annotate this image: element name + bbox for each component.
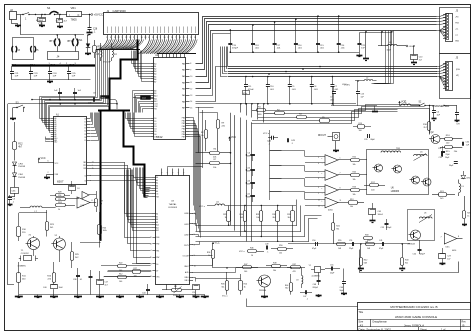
svg-text:19: 19 xyxy=(129,37,131,39)
diode CR4 1N4148 xyxy=(13,173,17,177)
resistor R1 680 xyxy=(257,109,266,112)
capacitor C16 .001 xyxy=(295,19,297,43)
ground top mid xyxy=(365,32,367,58)
svg-text:CO16112: CO16112 xyxy=(21,253,29,255)
diode CR3 1N4148 xyxy=(13,162,17,166)
wire VR1 output to +5VCC xyxy=(82,14,91,16)
svg-text:3k3: 3k3 xyxy=(288,217,291,219)
svg-text:R41: R41 xyxy=(336,225,339,227)
capacitor C39 xyxy=(89,276,93,278)
wires RIOT left group1 from cart area xyxy=(132,51,151,64)
svg-text:PA2: PA2 xyxy=(182,75,185,78)
svg-text:9k1: 9k1 xyxy=(336,228,339,230)
wire COLUM to R34 xyxy=(193,255,213,257)
svg-text:470uF: 470uF xyxy=(248,89,255,91)
svg-text:10k: 10k xyxy=(353,179,356,181)
resistor R29 1k xyxy=(228,206,230,211)
capacitor C23 1nF xyxy=(30,66,32,72)
TIA right pins luma color xyxy=(189,213,193,215)
wire TIA D0 D7 OSC xyxy=(132,263,151,265)
svg-text:12: 12 xyxy=(125,37,127,39)
thick data bus from cartridge staircase xyxy=(110,40,138,111)
op-amp U4B comparator xyxy=(325,170,338,181)
svg-text:2: 2 xyxy=(318,193,319,195)
svg-text:4u7: 4u7 xyxy=(447,258,450,260)
resistor R58 1k8 xyxy=(364,237,373,240)
svg-text:1k: 1k xyxy=(225,217,227,219)
svg-text:D7: D7 xyxy=(154,136,156,138)
svg-text:15k: 15k xyxy=(279,253,282,255)
ground rail under caps xyxy=(12,79,91,81)
svg-text:LUM0: LUM0 xyxy=(184,213,189,215)
svg-text:V: V xyxy=(172,173,173,175)
resistor R10 220 xyxy=(17,227,21,237)
svg-text:PB1: PB1 xyxy=(182,120,185,122)
svg-text:R32: R32 xyxy=(272,214,275,216)
svg-text:R58: R58 xyxy=(365,234,368,236)
svg-text:R45: R45 xyxy=(353,171,356,173)
thick bus vertical long to TIA region xyxy=(100,111,102,240)
svg-text:Draughtsman: Draughtsman xyxy=(373,320,388,323)
capacitor C44 1uF xyxy=(146,289,150,291)
bottom wire to title block xyxy=(247,299,358,307)
luma signal line 3 xyxy=(196,236,306,238)
svg-text:D6: D6 xyxy=(85,137,87,139)
svg-text:R36: R36 xyxy=(221,283,224,285)
capacitor C13 .068 xyxy=(250,182,255,184)
resistor R4b 470 xyxy=(297,116,307,119)
coil I3 xyxy=(12,46,13,52)
capacitor C21 1nF xyxy=(359,33,361,44)
RIOT right pins PA0-PA7 xyxy=(186,63,190,65)
svg-text:11: 11 xyxy=(318,200,320,202)
resistor R20 1k xyxy=(463,211,466,219)
svg-text:R44: R44 xyxy=(285,285,288,287)
inductor L7 xyxy=(30,206,42,207)
svg-text:8: 8 xyxy=(458,236,459,238)
resistor R47 100 xyxy=(243,266,252,269)
CPU left pins A0-A12 xyxy=(51,118,54,120)
svg-text:O2: O2 xyxy=(84,175,86,177)
svg-text:10uH: 10uH xyxy=(387,50,392,52)
RF shield box with connector J4 xyxy=(48,52,79,60)
cartridge pin name texture xyxy=(107,27,109,34)
wire TIA luma pins to rows xyxy=(193,214,196,226)
capacitor C46 56pF xyxy=(342,281,346,283)
svg-text:14: 14 xyxy=(251,255,253,257)
wire PA5 line xyxy=(196,34,231,96)
svg-text:PB0: PB0 xyxy=(182,118,185,120)
title block row lines xyxy=(358,309,471,311)
resistor R50 15k xyxy=(278,248,287,251)
svg-text:10: 10 xyxy=(164,37,166,39)
trimmer R8 900k xyxy=(172,289,182,292)
capacitor C1 1nF xyxy=(58,92,62,94)
wire CAD2 right xyxy=(193,259,213,266)
resistor R40 100k xyxy=(98,225,102,235)
svg-text:CR3: CR3 xyxy=(18,163,23,165)
capacitor C36 box xyxy=(11,188,19,194)
svg-text:PB3: PB3 xyxy=(182,126,185,128)
svg-text:8: 8 xyxy=(340,188,341,190)
wire J3 pin entries xyxy=(437,15,446,17)
resistor R16 2k7 xyxy=(428,122,431,131)
svg-text:S4: S4 xyxy=(47,6,51,10)
wire verticals RIOT to TIA gap xyxy=(198,107,200,153)
luma signal line 1 xyxy=(196,225,298,227)
svg-text:PB1: PB1 xyxy=(156,250,159,252)
capacitor C38 .01 xyxy=(76,275,80,277)
op-amp U4D comparator xyxy=(325,197,338,208)
capacitor C9 .001 xyxy=(289,77,291,85)
svg-text:10: 10 xyxy=(194,266,196,268)
resistor R17 100 xyxy=(370,184,379,187)
coil I5 xyxy=(31,46,32,52)
junction dots on J5 bundle xyxy=(252,76,254,78)
svg-text:23: 23 xyxy=(144,37,146,39)
bypass row1 bottom bus xyxy=(230,52,359,54)
svg-text:PA4: PA4 xyxy=(182,88,185,91)
RIOT right pins PB0-PB7 xyxy=(186,117,190,119)
resistor R26 220 xyxy=(53,273,56,283)
svg-text:1k: 1k xyxy=(244,286,246,288)
svg-text:DS1: DS1 xyxy=(78,39,83,42)
svg-text:LUM1: LUM1 xyxy=(184,224,189,226)
IC U1 CPU 6507 xyxy=(54,117,87,185)
resistor R12 4k7 xyxy=(14,122,16,142)
bypass row2 bus left part xyxy=(8,103,117,105)
luma signal line 4 xyxy=(196,241,310,243)
svg-text:GND: GND xyxy=(455,41,460,43)
svg-text:CS: CS xyxy=(156,194,158,196)
resistor R11 240 xyxy=(17,273,21,283)
resistor R39 1M xyxy=(95,199,98,207)
inductor L8c xyxy=(302,276,303,284)
capacitor C4 1uF xyxy=(425,105,434,107)
wire C21 hook to L3 node xyxy=(360,33,392,46)
resistor R25 2k2 xyxy=(71,252,74,261)
capacitor C7 .001 xyxy=(332,77,334,85)
svg-text:13: 13 xyxy=(152,37,154,39)
svg-text:9k1: 9k1 xyxy=(405,262,408,264)
svg-text:A0: A0 xyxy=(154,62,156,65)
svg-text:A1: A1 xyxy=(154,65,156,68)
capacitor C48 820pF xyxy=(317,280,321,282)
oscillator transistor pair left xyxy=(375,164,383,172)
svg-text:C48: C48 xyxy=(313,284,316,286)
svg-text:C38: C38 xyxy=(73,279,76,281)
svg-text:1: 1 xyxy=(106,37,107,39)
svg-text:R33: R33 xyxy=(287,214,290,216)
bar collecting right fan xyxy=(157,53,196,55)
wire 5V rail left xyxy=(32,99,93,101)
svg-text:20: 20 xyxy=(156,37,158,39)
resistor R24 1k xyxy=(56,204,66,207)
svg-text:820pF: 820pF xyxy=(386,227,392,229)
svg-text:7: 7 xyxy=(175,37,176,39)
svg-text:.068: .068 xyxy=(246,170,250,172)
thick bus branch staircase to TIA data pins xyxy=(124,111,145,198)
resistor R42 6k8 xyxy=(360,258,363,266)
svg-text:RES: RES xyxy=(83,162,86,164)
svg-text:3: 3 xyxy=(194,213,195,215)
capacitor C21 1nF xyxy=(11,66,13,72)
svg-text:2: 2 xyxy=(194,245,195,247)
svg-text:C49: C49 xyxy=(265,244,268,246)
inductor box P61 P64 xyxy=(13,38,34,60)
capacitor C17 .001 xyxy=(274,22,276,44)
svg-text:22: 22 xyxy=(118,37,120,39)
wire CPU control to TIA xyxy=(91,162,125,164)
TIA right pins audio xyxy=(189,272,193,274)
capacitor C52 1nF xyxy=(193,285,200,290)
svg-text:7805: 7805 xyxy=(71,18,78,22)
svg-text:4700uF: 4700uF xyxy=(36,20,44,22)
svg-text:U6C: U6C xyxy=(446,247,451,249)
svg-text:C20: C20 xyxy=(419,57,422,59)
svg-text:A12: A12 xyxy=(154,100,157,103)
resistor R54 1k8 xyxy=(366,243,375,246)
svg-text:D7: D7 xyxy=(85,140,87,142)
inductor L11 on VCC rail xyxy=(215,204,225,206)
CPU VCC pin xyxy=(47,162,54,164)
svg-text:C29: C29 xyxy=(447,256,450,258)
svg-text:PB6: PB6 xyxy=(182,134,185,136)
TIA top pin wires to trunk xyxy=(168,167,203,169)
svg-text:A4: A4 xyxy=(154,73,156,76)
resistor R45 10k xyxy=(351,174,360,177)
svg-text:24: 24 xyxy=(171,37,173,39)
transistor Q5 2N3904 xyxy=(259,275,271,287)
svg-text:5: 5 xyxy=(121,37,122,39)
svg-text:C41: C41 xyxy=(379,240,382,242)
capacitor C37 input xyxy=(9,195,11,198)
thin fan thick bus to TIA left pins xyxy=(145,197,148,199)
capacitor C6 .068 xyxy=(250,154,255,156)
svg-text:C47: C47 xyxy=(303,296,306,298)
wire fan cart left pins sweeping down-left xyxy=(99,40,108,50)
wire fan cart right pins sweeping down-left xyxy=(139,40,150,54)
wire PAL pins down xyxy=(193,278,196,282)
capacitor C41 47pF xyxy=(382,242,384,246)
capacitor C20 4u7 xyxy=(411,55,418,60)
wires RIOT data pins from thick bus xyxy=(126,113,151,119)
capacitor C54 820pF xyxy=(418,249,422,251)
svg-text:D3: D3 xyxy=(85,128,87,130)
grounds lower middle xyxy=(264,295,266,296)
resistor R34 1k xyxy=(212,250,215,259)
connector J3 pin block xyxy=(446,14,453,42)
wire PA4 line to bundle xyxy=(196,31,437,89)
capacitor C18 .001 xyxy=(252,25,254,44)
svg-text:5: 5 xyxy=(318,157,319,159)
wires BT to J4 xyxy=(57,35,59,39)
svg-text:C010903: C010903 xyxy=(168,207,178,209)
RIOT left pins group3 data xyxy=(151,118,154,120)
svg-text:Sheet: Sheet xyxy=(420,327,427,331)
RF oscillator enclosure xyxy=(367,150,429,195)
svg-text:15: 15 xyxy=(114,37,116,39)
svg-text:CSYN: CSYN xyxy=(184,245,189,247)
capacitor C51 22pF xyxy=(352,242,354,246)
wire CPU clocks to TIA xyxy=(91,176,151,258)
svg-text:8k2: 8k2 xyxy=(273,217,276,219)
wire bundle corners left of row2 xyxy=(227,47,229,67)
svg-text:A7: A7 xyxy=(154,80,156,83)
svg-text:PH2: PH2 xyxy=(156,244,159,246)
capacitor C14 .001 xyxy=(338,16,340,43)
svg-text:6: 6 xyxy=(148,37,149,39)
luma signal line 2 xyxy=(196,231,302,233)
wire 5V verticals from top bundle xyxy=(377,31,386,84)
svg-text:O0: O0 xyxy=(84,181,86,183)
capacitor C8 .001 xyxy=(311,77,313,85)
TIA left pins group2 xyxy=(152,213,155,215)
svg-text:R48: R48 xyxy=(273,262,276,264)
svg-text:C54: C54 xyxy=(413,254,416,256)
svg-text:+5VCC: +5VCC xyxy=(94,13,103,17)
resistor R37b 470 xyxy=(291,266,301,269)
svg-text:PAL0: PAL0 xyxy=(185,276,189,279)
svg-text:C55: C55 xyxy=(330,264,333,266)
connector J5 enclosure xyxy=(440,54,471,99)
wire AUD to audio xyxy=(193,268,236,273)
svg-text:ATARI 2600 GAME CONSOLE: ATARI 2600 GAME CONSOLE xyxy=(395,315,437,319)
capacitor C28 0.1 xyxy=(89,15,91,28)
ground C20 xyxy=(413,62,415,63)
wire S4 to VR1 xyxy=(55,14,68,16)
svg-text:VCC o: VCC o xyxy=(239,251,245,253)
tuner sub-enclosure xyxy=(408,210,435,241)
svg-text:C34: C34 xyxy=(466,142,469,144)
svg-text:CAD2: CAD2 xyxy=(184,265,189,268)
svg-text:1M: 1M xyxy=(99,203,102,205)
svg-text:4u7: 4u7 xyxy=(105,284,108,286)
resistor R46 14 xyxy=(248,250,257,253)
svg-text:12k: 12k xyxy=(58,199,61,201)
svg-text:13: 13 xyxy=(190,95,192,97)
VCC R34 xyxy=(212,244,214,247)
svg-text:21: 21 xyxy=(183,37,185,39)
svg-text:6507: 6507 xyxy=(57,180,64,184)
svg-text:V: V xyxy=(161,173,162,175)
capacitor C27 4u7 audio xyxy=(97,280,104,285)
svg-text:-CL: -CL xyxy=(455,35,458,37)
transformer TR1 coils xyxy=(381,151,391,153)
svg-text:VR1: VR1 xyxy=(71,6,77,10)
svg-text:12: 12 xyxy=(190,88,192,90)
svg-text:RFOUT: RFOUT xyxy=(318,135,327,137)
wire battery rail xyxy=(20,15,22,36)
resistor R5 1k xyxy=(320,119,330,123)
resistor R12b 100 xyxy=(118,276,127,279)
comparator input verticals xyxy=(269,130,271,200)
svg-text:LUM2: LUM2 xyxy=(184,234,189,236)
capacitor C11 470uF xyxy=(245,77,247,85)
wire luma drops from row2 bus xyxy=(240,104,242,113)
svg-text:PB7: PB7 xyxy=(182,137,185,139)
svg-text:D4: D4 xyxy=(85,131,87,133)
svg-text:10k: 10k xyxy=(350,206,353,208)
capacitor C24 1nF xyxy=(49,66,51,72)
svg-text:R/W: R/W xyxy=(156,257,160,259)
wire J2 down xyxy=(11,20,13,25)
svg-text:R53: R53 xyxy=(353,186,356,188)
op-amp small near CPU xyxy=(82,192,89,199)
VCC L1 xyxy=(399,103,401,106)
op-amp U6C xyxy=(444,233,457,244)
bar collecting left fan xyxy=(96,49,140,51)
resistor R36 5k1 xyxy=(226,281,229,291)
wire left rail upper xyxy=(7,104,9,197)
svg-text:O: O xyxy=(78,15,80,17)
svg-text:PA5: PA5 xyxy=(182,94,185,97)
VCC mid xyxy=(229,138,231,141)
svg-text:A6: A6 xyxy=(154,78,156,81)
resistor R2 20k xyxy=(205,130,208,139)
svg-text:470: 470 xyxy=(293,271,296,273)
switch S1 contact xyxy=(17,14,24,16)
capacitor C19 470pF xyxy=(230,30,232,43)
capacitor C2 1nF xyxy=(73,92,77,94)
inductor L6 xyxy=(414,154,428,156)
svg-text:4u7: 4u7 xyxy=(419,59,422,61)
capacitor C55 22pF xyxy=(331,267,333,271)
diode CR2 xyxy=(461,175,466,179)
svg-text:L11: L11 xyxy=(216,201,219,203)
capacitor C26 4700uF electrolytic xyxy=(41,15,43,18)
svg-text:A8: A8 xyxy=(154,90,156,93)
capacitor C25 1nF xyxy=(68,66,70,72)
svg-text:+CL: +CL xyxy=(455,29,458,31)
CPU data pin nest up to bus xyxy=(90,113,92,119)
svg-text:A2: A2 xyxy=(154,68,156,71)
svg-text:1k8: 1k8 xyxy=(367,248,370,250)
CPU right pins D0-D7 xyxy=(87,118,90,120)
comparator input wires xyxy=(305,156,325,158)
svg-text:R14: R14 xyxy=(244,283,247,285)
svg-text:8k2: 8k2 xyxy=(285,288,288,290)
resistor R52 10k xyxy=(351,159,360,162)
wire PA6 PA7 to J5 bundle xyxy=(196,67,228,102)
svg-text:1k: 1k xyxy=(208,255,210,257)
resistor R27 100 xyxy=(133,270,141,274)
CPU clock pins O2 O0 xyxy=(87,175,91,177)
svg-text:.068: .068 xyxy=(246,183,250,185)
op-amp U4C comparator xyxy=(325,185,338,196)
svg-text:.1: .1 xyxy=(267,251,269,253)
svg-text:V: V xyxy=(178,173,179,175)
resistor R30 3k3 xyxy=(244,206,246,211)
svg-text:C31: C31 xyxy=(438,148,441,150)
svg-text:12: 12 xyxy=(318,206,320,208)
resistor R48 10k xyxy=(272,265,281,268)
svg-text:1k8: 1k8 xyxy=(365,242,368,244)
resistor R7 10k xyxy=(210,162,220,165)
svg-text:.1: .1 xyxy=(307,299,309,301)
wire bus PA pins to top bundle J3 xyxy=(196,17,437,64)
TIA left pin wires group2 nest xyxy=(125,170,153,214)
capacitor C50 47pF xyxy=(315,242,317,246)
svg-text:3k3: 3k3 xyxy=(240,217,243,219)
VCC symbol near CPU xyxy=(38,159,40,162)
oscillator transistor pair right xyxy=(412,176,420,184)
svg-text:R13: R13 xyxy=(350,199,353,201)
svg-text:C3: C3 xyxy=(13,199,15,201)
svg-text:820pF: 820pF xyxy=(420,254,426,256)
connector J2 power jack xyxy=(10,12,17,20)
svg-text:2: 2 xyxy=(92,165,93,167)
